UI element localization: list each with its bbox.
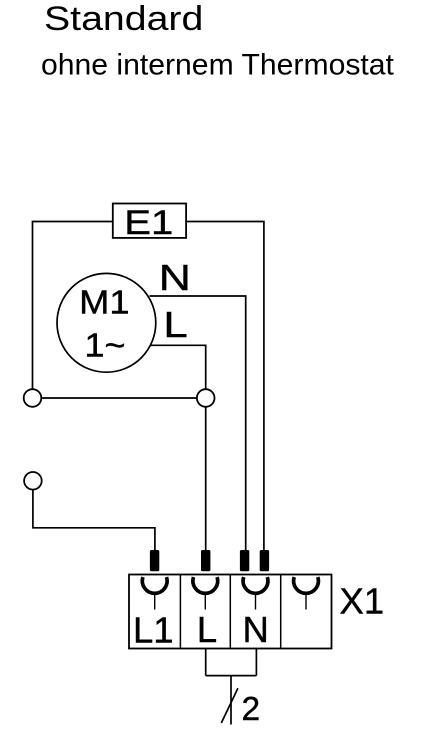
terminal block divider 2 <box>229 575 231 649</box>
wire: E1 left lead + left rail down to connector <box>33 222 113 390</box>
svg-text:L1: L1 <box>133 609 174 650</box>
terminal block divider 1 <box>179 575 181 649</box>
cable core-count slash <box>221 688 238 723</box>
svg-text:N: N <box>243 609 269 650</box>
svg-text:E1: E1 <box>124 203 173 241</box>
motor M1 (circle) <box>57 273 156 372</box>
svg-text:ohne internem Thermostat: ohne internem Thermostat <box>41 49 395 82</box>
wire-end ferrule 4 (terminal N, E1 wire) <box>260 550 269 571</box>
wire-end ferrule 2 (terminal L) <box>201 550 210 571</box>
wire-end ferrule 1 (terminal L1) <box>150 550 159 571</box>
clamp symbol terminal 4 (unused) <box>294 577 319 609</box>
svg-text:N: N <box>159 257 191 298</box>
wire: cable tail <box>230 676 232 725</box>
svg-text:Standard: Standard <box>44 0 203 38</box>
svg-text:1~: 1~ <box>85 328 126 364</box>
wire: motor L lead to junction circle <box>151 345 206 389</box>
wire: cable bundle bar <box>206 675 257 677</box>
wire: cable drop from terminal N <box>255 649 257 676</box>
junction circle (open, above terminal L) <box>197 389 215 407</box>
svg-text:M1: M1 <box>79 285 129 321</box>
svg-text:X1: X1 <box>340 580 385 621</box>
wire: upper-left contact to junction circle <box>41 397 197 399</box>
clamp symbol terminal L1 <box>142 577 167 609</box>
svg-text:L: L <box>163 304 187 345</box>
wire: junction circle down to terminal L <box>205 407 207 551</box>
wire: motor N lead to terminal N <box>150 296 246 551</box>
connector contact circle (lower left, open) <box>24 472 42 490</box>
terminal block X1 outline <box>129 575 332 649</box>
terminal block divider 3 <box>280 575 282 649</box>
svg-text:2: 2 <box>242 691 261 728</box>
connector contact circle (upper left, open) <box>24 389 42 407</box>
clamp symbol terminal L <box>193 577 218 609</box>
svg-text:L: L <box>197 609 217 650</box>
clamp symbol terminal N <box>243 577 268 609</box>
wire-end ferrule 3 (terminal N, motor wire) <box>240 550 249 571</box>
heater E1 (box) <box>113 203 186 241</box>
wire: E1 right lead + drop to terminal N (right wire) <box>186 222 264 552</box>
wire: lower-left contact to terminal L1 <box>33 490 155 551</box>
wire: cable drop from terminal L <box>205 649 207 676</box>
